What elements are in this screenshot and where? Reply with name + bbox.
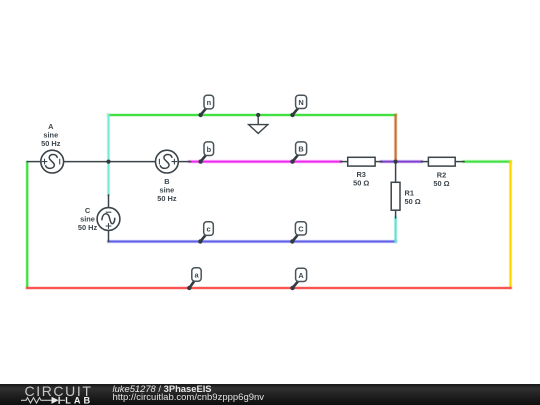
footer black bar with CircuitLab branding	[0, 384, 540, 405]
wire: gray stub R1 bottom	[395, 210, 397, 218]
node flag a	[187, 268, 201, 290]
wire: right rail vertical (yellow)	[509, 162, 513, 288]
svg-text:50 Hz: 50 Hz	[157, 194, 177, 203]
wire: gray segment from V A to node and V B left terminal	[64, 161, 156, 163]
wire: vertical from top corner down to source C (cyan)	[107, 115, 111, 195]
node flag c	[198, 222, 213, 244]
svg-text:C: C	[298, 225, 304, 234]
svg-text:LAB: LAB	[65, 396, 93, 405]
svg-text:n: n	[207, 98, 212, 107]
node flag N	[290, 95, 306, 117]
svg-text:50 Ω: 50 Ω	[353, 179, 369, 188]
svg-text:B: B	[298, 145, 303, 154]
wire: gray stub R2 right	[455, 161, 464, 163]
resistor R2	[428, 157, 455, 166]
node flag C	[290, 222, 306, 244]
label for R2: "R2 / 50 Ω"	[433, 171, 449, 188]
logo resistor-diode glyph	[21, 397, 65, 404]
wire: gray segment left rail to V A negative terminal	[27, 161, 41, 163]
node flag b	[198, 142, 213, 164]
label for R1: "R1 / 50 Ω"	[405, 189, 421, 206]
svg-text:A: A	[298, 271, 304, 280]
voltage source V3 (C)	[97, 208, 120, 231]
resistor R3	[348, 157, 375, 166]
CircuitLab logo wordmark	[0, 384, 110, 405]
voltage source V2 (B)	[156, 150, 179, 173]
footer text line 1: user / project	[113, 384, 212, 393]
wire: gray stub from V B plus terminal	[178, 161, 190, 163]
wire: bottom phase A rail (red)	[27, 286, 510, 290]
voltage source V1 (A)	[41, 150, 64, 173]
svg-text:b: b	[207, 145, 212, 154]
wire: gray stub from C bottom terminal to blue wire	[108, 230, 110, 241]
wire: vertical from blue wire up to R1 (cyan)	[394, 218, 398, 242]
label for V C: "C / sine / 50 Hz"	[78, 206, 98, 232]
wire: gray stub R3 right	[375, 161, 382, 163]
node flag n	[198, 95, 213, 117]
label for R3: "R3 / 50 Ω"	[353, 170, 369, 187]
label for V A: "A / sine / 50 Hz"	[41, 122, 61, 148]
svg-text:N: N	[298, 98, 303, 107]
wire: phase B output (magenta)	[190, 160, 342, 164]
ground GND	[249, 113, 268, 133]
node junction at A/B/vertical (dot)	[106, 160, 110, 164]
wire: vertical drop from neutral wire to center junction (orange)	[394, 115, 398, 161]
svg-text:c: c	[207, 225, 211, 234]
svg-text:50 Ω: 50 Ω	[433, 179, 449, 188]
footer text line 2: url	[113, 393, 265, 403]
wire: left rail vertical below source A (green)	[25, 162, 29, 287]
wire: gray stub into R3 left	[341, 161, 348, 163]
wire: R3 to junction to R2 (purple)	[381, 160, 421, 164]
wire: R2 output to right rail (green)	[464, 160, 511, 164]
wire: neutral top horizontal (green) from corner above C to junction column	[109, 113, 396, 117]
svg-text:50 Hz: 50 Hz	[78, 223, 98, 232]
label for V B: "B / sine / 50 Hz"	[157, 177, 177, 203]
node flag A	[290, 268, 306, 290]
svg-text:50 Hz: 50 Hz	[41, 139, 61, 148]
node flag B	[290, 142, 306, 164]
svg-text:50 Ω: 50 Ω	[405, 197, 421, 206]
wire: gray from center junction down to R1 top	[395, 162, 397, 183]
wire: gray stub into R2 left	[421, 161, 428, 163]
resistor R1 (vertical)	[391, 182, 400, 210]
node junction at R1/R3/R2/neutral (dot)	[394, 160, 398, 164]
wire: gray stub from cyan vertical into C top terminal	[108, 195, 110, 208]
wire: phase C horizontal (blue)	[109, 240, 396, 244]
